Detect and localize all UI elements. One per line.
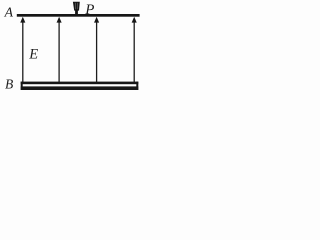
svg-text:P: P	[84, 2, 94, 18]
plate B right end cap	[136, 82, 138, 90]
plate B bottom edge	[21, 86, 139, 90]
svg-text:B: B	[5, 77, 13, 92]
field arrow 4	[133, 22, 135, 83]
plate B (bottom electrode, outlined bar) top edge	[21, 82, 139, 85]
field arrow 1	[22, 22, 24, 83]
plate B left end cap	[21, 82, 23, 90]
plate A (top electrode)	[17, 14, 140, 17]
load wedge P (indenter pressing on plate A)	[73, 2, 80, 11]
field arrow 2	[58, 22, 60, 83]
field arrow 3	[96, 22, 98, 83]
svg-text:E: E	[28, 47, 38, 63]
svg-text:A: A	[4, 5, 14, 20]
